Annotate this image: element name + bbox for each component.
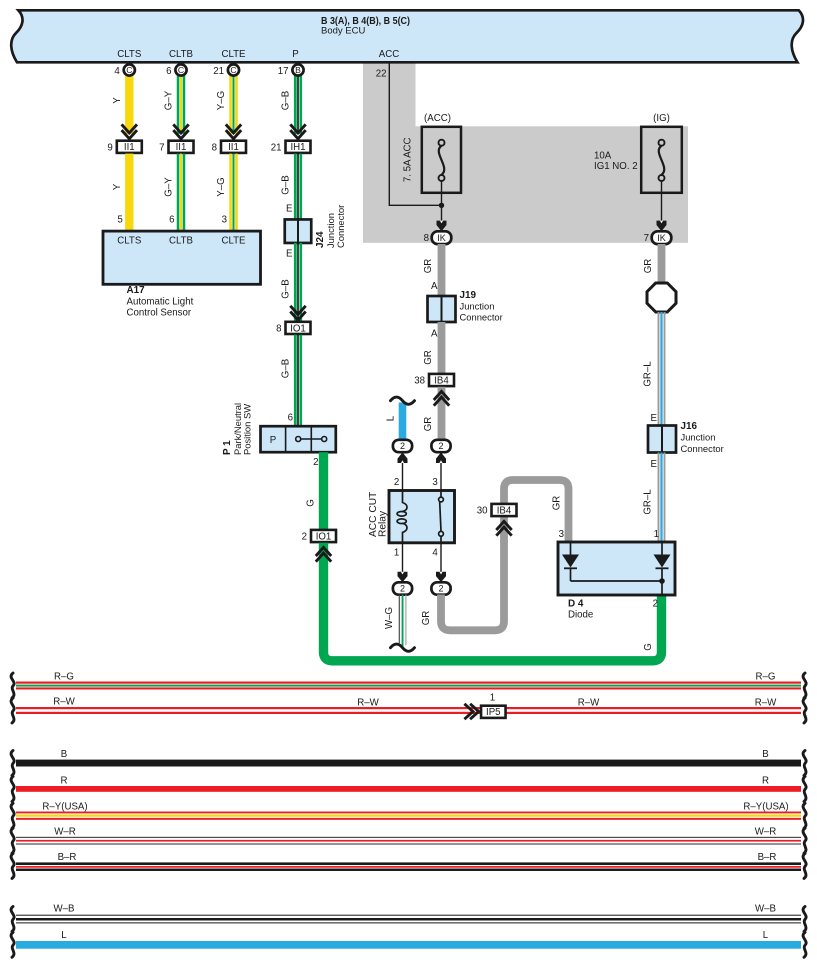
connector II1 pin 9 <box>117 141 142 153</box>
svg-text:6: 6 <box>166 66 171 77</box>
connector IB4 pin 30 <box>492 504 517 516</box>
svg-text:IO1: IO1 <box>290 323 306 334</box>
arrow into oval 2 below relay pin 4 <box>436 572 446 583</box>
connector arrow into II1 pin 7 <box>173 124 188 138</box>
wire GR from IK 8 to J19 <box>438 244 446 297</box>
connector IP5 pin 1 <box>481 706 506 718</box>
svg-text:Junction: Junction <box>460 301 495 312</box>
wire G-Y to A17 pin 6 <box>177 154 180 232</box>
relay pin 1 lead <box>402 543 404 580</box>
svg-text:Body ECU: Body ECU <box>321 26 365 37</box>
junction connector J16 <box>648 426 676 453</box>
svg-text:10A: 10A <box>594 150 612 161</box>
ACC CUT Relay <box>389 491 455 543</box>
bus wire R <box>16 786 801 792</box>
svg-text:IK: IK <box>657 233 666 243</box>
svg-text:7. 5A ACC: 7. 5A ACC <box>403 137 414 182</box>
wire Y-G to A17 pin 3 <box>229 154 232 232</box>
arrow into oval 2 from relay pin 3 <box>440 452 442 490</box>
svg-text:E: E <box>651 459 658 470</box>
svg-text:B–R: B–R <box>758 852 777 863</box>
svg-text:2: 2 <box>400 584 405 594</box>
svg-text:2: 2 <box>313 457 318 468</box>
wire G-B from IO1 to P1 pin 6 <box>294 335 297 427</box>
wire GR-L from octagon to J16 <box>658 312 660 426</box>
svg-text:2: 2 <box>394 477 399 488</box>
svg-text:R–W: R–W <box>53 696 75 707</box>
svg-text:IO1: IO1 <box>316 531 332 542</box>
arrow into IK pin 7 <box>657 221 667 232</box>
pin 21 (C) of Body ECU <box>228 64 239 75</box>
svg-text:C: C <box>178 65 184 75</box>
relay pin 4 lead <box>440 543 442 580</box>
svg-text:A: A <box>431 281 438 292</box>
connector arrow into IO1 pin 2 <box>316 547 331 561</box>
svg-text:(ACC): (ACC) <box>424 113 451 124</box>
svg-text:2: 2 <box>438 441 443 451</box>
wire W-G stub <box>399 595 400 644</box>
wire G-B from J24 to IO1 <box>294 243 297 322</box>
svg-text:7: 7 <box>644 233 649 244</box>
svg-text:Control Sensor: Control Sensor <box>127 307 192 318</box>
wire Y to A17 pin 5 <box>125 154 133 232</box>
connector IB4 pin 38 <box>429 374 454 386</box>
svg-text:2: 2 <box>400 441 405 451</box>
connector arrow out of IB4 pin 38 <box>434 391 449 405</box>
svg-text:GR: GR <box>643 259 654 274</box>
svg-text:7: 7 <box>159 143 164 154</box>
wire G-B to junction connector J24 <box>294 154 297 220</box>
bus wire B <box>16 760 801 767</box>
bus wire B-R <box>16 862 801 865</box>
connector oval 2 at relay pin 3 <box>431 440 450 452</box>
svg-text:A: A <box>431 329 438 340</box>
svg-text:B: B <box>295 65 301 75</box>
bus wire R-Y(USA) <box>16 812 801 814</box>
arrow into IK pin 8 <box>437 221 447 232</box>
svg-text:GR–L: GR–L <box>643 361 654 387</box>
wire GR from J19 to IB4 <box>438 322 446 374</box>
power source shading band <box>363 62 416 127</box>
wire Y-G from pin 21 (CLTE) <box>229 75 232 134</box>
svg-text:GR: GR <box>423 417 434 432</box>
connector arrow into IO1 pin 8 <box>290 306 305 320</box>
svg-text:3: 3 <box>432 477 437 488</box>
wire GR from relay pin 4 to diode D4 pin 3 via IB4 <box>441 480 569 630</box>
svg-text:R–G: R–G <box>54 671 74 682</box>
svg-text:R–W: R–W <box>578 697 600 708</box>
svg-text:6: 6 <box>288 413 293 424</box>
wire IG fuse to IK connector <box>661 181 663 228</box>
svg-text:GR: GR <box>423 259 434 274</box>
svg-text:Connector: Connector <box>681 443 724 454</box>
svg-text:B: B <box>61 749 67 760</box>
relay coil <box>403 491 408 512</box>
connector arrow into IP5 <box>464 704 478 719</box>
svg-text:2: 2 <box>653 599 658 610</box>
svg-text:B: B <box>762 749 768 760</box>
connector oval 2 below relay pin 4 <box>431 582 450 594</box>
connector IH1 pin 21 <box>286 141 311 153</box>
svg-text:21: 21 <box>213 66 224 77</box>
svg-text:R: R <box>61 776 68 787</box>
svg-text:4: 4 <box>114 66 120 77</box>
arrow into oval 2 below relay pin 1 <box>398 572 408 583</box>
svg-text:G: G <box>306 499 317 507</box>
pin 4 (C) of Body ECU <box>124 64 135 75</box>
svg-text:38: 38 <box>414 376 425 387</box>
bus wire L <box>16 941 801 949</box>
break squiggle on L wire <box>391 397 415 404</box>
svg-text:6: 6 <box>169 215 174 226</box>
svg-text:Y: Y <box>112 97 123 104</box>
svg-text:R–Y(USA): R–Y(USA) <box>743 801 788 812</box>
svg-text:G–B: G–B <box>280 91 291 110</box>
svg-text:W–G: W–G <box>384 607 395 629</box>
svg-text:Y–G: Y–G <box>216 91 227 110</box>
connector arrow into II1 pin 9 <box>122 124 137 138</box>
svg-text:IB4: IB4 <box>434 375 449 386</box>
svg-text:21: 21 <box>271 143 282 154</box>
svg-text:GR: GR <box>552 496 563 511</box>
svg-text:R–W: R–W <box>755 697 777 708</box>
svg-text:W–B: W–B <box>54 904 75 915</box>
connector II1 pin 7 <box>169 141 194 153</box>
svg-text:8: 8 <box>424 233 429 244</box>
svg-text:GR: GR <box>423 350 434 365</box>
svg-text:8: 8 <box>212 143 217 154</box>
svg-text:CLTE: CLTE <box>221 236 246 247</box>
break squiggle on W-G wire <box>391 644 415 651</box>
junction node below ACC fuse <box>439 203 444 208</box>
svg-text:17: 17 <box>278 66 289 77</box>
svg-text:1: 1 <box>394 548 399 559</box>
relay switch contact <box>440 491 442 498</box>
pin 6 (C) of Body ECU <box>175 64 186 75</box>
svg-text:3: 3 <box>559 529 564 540</box>
arrow into oval 2 from relay pin 2 <box>402 452 404 490</box>
svg-text:IG1 NO. 2: IG1 NO. 2 <box>594 161 638 172</box>
svg-text:G–Y: G–Y <box>164 177 175 197</box>
svg-text:CLTE: CLTE <box>221 49 246 60</box>
connector IO1 pin 2 <box>311 530 336 542</box>
diode internal wire and junction <box>571 580 663 582</box>
connector arrow into II1 pin 8 <box>226 124 241 138</box>
D4 Diode <box>558 542 675 595</box>
connector oval 2 below relay pin 1 <box>393 582 412 594</box>
svg-text:GR–L: GR–L <box>643 489 654 515</box>
svg-text:30: 30 <box>477 506 488 517</box>
svg-text:Connector: Connector <box>460 312 503 323</box>
svg-text:W–R: W–R <box>755 826 777 837</box>
connector II1 pin 8 <box>221 141 246 153</box>
svg-text:2: 2 <box>438 584 443 594</box>
connector IO1 pin 8 <box>286 322 311 334</box>
svg-text:CLTS: CLTS <box>117 49 142 60</box>
fuse 10A IG1 NO. 2 <box>641 127 682 193</box>
svg-text:W–B: W–B <box>755 904 776 915</box>
svg-text:C: C <box>126 65 132 75</box>
junction connector J24 <box>285 219 312 243</box>
junction connector J19 <box>428 296 456 322</box>
wire G-B from pin 17 (P) <box>294 75 297 134</box>
connector IK pin 8 <box>432 231 452 244</box>
svg-text:G–B: G–B <box>280 175 291 194</box>
svg-text:R: R <box>762 776 769 787</box>
noise filter octagon <box>647 283 676 312</box>
svg-text:G–Y: G–Y <box>164 90 175 110</box>
svg-text:8: 8 <box>276 324 281 335</box>
svg-text:1: 1 <box>490 693 495 704</box>
svg-text:P: P <box>270 435 276 446</box>
svg-text:L: L <box>61 930 67 941</box>
svg-text:II1: II1 <box>176 142 187 153</box>
svg-text:Connector: Connector <box>335 205 346 248</box>
bus wire W-B <box>16 915 801 916</box>
bus wire R-W <box>16 707 801 709</box>
svg-text:IH1: IH1 <box>290 142 305 153</box>
svg-text:G: G <box>643 643 654 651</box>
Body ECU block B 3(A), B 4(B), B 5(C) <box>11 10 803 62</box>
pin 17 (B) of Body ECU <box>292 64 303 75</box>
svg-text:W–R: W–R <box>54 826 76 837</box>
svg-text:II1: II1 <box>124 142 135 153</box>
svg-text:E: E <box>651 413 658 424</box>
svg-text:ACC: ACC <box>379 49 399 60</box>
wire G-Y from pin 6 (CLTB) <box>177 75 180 134</box>
svg-text:Y–G: Y–G <box>216 177 227 196</box>
svg-text:L: L <box>385 415 396 421</box>
connector arrow into IB4 pin 30 <box>496 521 511 535</box>
svg-text:II1: II1 <box>228 142 239 153</box>
svg-text:J16: J16 <box>681 421 698 432</box>
svg-text:(IG): (IG) <box>653 113 670 124</box>
svg-text:G–B: G–B <box>280 279 291 298</box>
A17 Automatic Light Control Sensor <box>103 231 261 284</box>
svg-text:9: 9 <box>107 143 112 154</box>
connector arrow into IH1 pin 21 <box>290 124 305 138</box>
wire Y from pin 4 (CLTS) <box>125 75 133 134</box>
svg-text:GR: GR <box>421 611 432 626</box>
svg-text:R–W: R–W <box>357 697 379 708</box>
svg-text:Relay: Relay <box>378 510 389 537</box>
diode element left <box>570 542 572 555</box>
wire ACC fuse to IK connector <box>441 181 443 228</box>
svg-text:E: E <box>286 249 293 260</box>
svg-text:G–B: G–B <box>280 359 291 378</box>
svg-text:CLTB: CLTB <box>169 49 193 60</box>
svg-text:5: 5 <box>117 215 122 226</box>
svg-text:IB4: IB4 <box>497 505 512 516</box>
fuse 7.5A ACC <box>422 127 461 193</box>
svg-text:2: 2 <box>302 532 307 543</box>
svg-text:1: 1 <box>654 529 659 540</box>
svg-text:E: E <box>286 204 293 215</box>
svg-text:4: 4 <box>432 548 438 559</box>
svg-text:L: L <box>763 930 769 941</box>
svg-text:A17: A17 <box>127 285 146 296</box>
svg-text:D 4: D 4 <box>568 599 584 610</box>
wire L stub <box>399 403 407 441</box>
connector oval 2 at relay pin 2 <box>393 440 412 452</box>
wire GR from IK 7 to noise filter <box>658 244 666 284</box>
svg-text:C: C <box>230 65 236 75</box>
svg-text:P: P <box>292 49 298 60</box>
svg-text:IP5: IP5 <box>486 707 501 718</box>
svg-text:Diode: Diode <box>568 609 593 620</box>
svg-text:B–R: B–R <box>58 852 77 863</box>
wire G from P1 pin 2 to IO1 <box>319 452 328 530</box>
wire GR-L from J16 to diode pin 1 <box>658 453 660 543</box>
bus wire R-G <box>16 682 801 684</box>
svg-text:Position SW: Position SW <box>242 404 253 455</box>
svg-text:R–G: R–G <box>756 671 776 682</box>
svg-text:3: 3 <box>222 215 227 226</box>
svg-text:CLTB: CLTB <box>169 236 193 247</box>
diode element right <box>661 542 663 555</box>
svg-text:22: 22 <box>376 69 387 80</box>
svg-text:IK: IK <box>437 233 446 243</box>
wire from ECU pin 22 to ACC fuse node <box>389 64 441 206</box>
connector IK pin 7 <box>652 231 672 244</box>
svg-text:Y: Y <box>112 183 123 190</box>
svg-text:CLTS: CLTS <box>117 236 142 247</box>
svg-text:Junction: Junction <box>681 432 716 443</box>
wire GR from IB4 to relay connector <box>438 387 446 440</box>
svg-text:R–Y(USA): R–Y(USA) <box>42 801 87 812</box>
svg-text:Automatic Light: Automatic Light <box>127 297 194 308</box>
bus wire W-R <box>16 837 801 838</box>
wire G from IO1 to diode D4 pin 2 <box>324 543 662 661</box>
P1 Park/Neutral Position SW <box>261 426 336 452</box>
